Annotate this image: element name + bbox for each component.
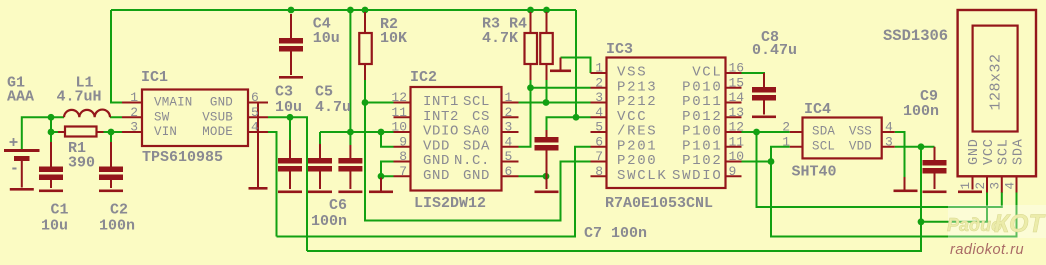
svg-text:2: 2 — [782, 120, 790, 135]
svg-text:P012: P012 — [682, 109, 722, 125]
ground for C8 — [752, 116, 776, 119]
svg-text:12: 12 — [729, 120, 745, 135]
label IC4 — [804, 101, 831, 118]
IC1 pin name MODE — [202, 125, 233, 139]
svg-text:IC2: IC2 — [410, 69, 437, 86]
label C9 — [920, 88, 938, 105]
resistor R2 — [359, 33, 372, 64]
svg-text:P212: P212 — [617, 94, 657, 110]
junction at 111,132 — [108, 129, 115, 136]
IC1 pin 5 stub — [248, 116, 268, 118]
svg-text:1: 1 — [505, 90, 513, 105]
svg-text:GND: GND — [423, 153, 450, 169]
junction at 546.5,10 — [543, 7, 550, 14]
wire SCL row IC2 to IC3 — [519, 102, 591, 104]
svg-text:4: 4 — [1003, 182, 1017, 190]
capacitor C8 top lead — [763, 73, 765, 87]
svg-text:4: 4 — [595, 105, 603, 120]
junction at 51,117.25 — [48, 114, 55, 121]
svg-text:CS: CS — [472, 109, 490, 125]
svg-text:VSS: VSS — [849, 125, 872, 139]
label R3 R4 value 4.7K — [482, 30, 518, 47]
svg-text:4.7K: 4.7K — [482, 30, 518, 47]
display pin 4 stub — [1016, 176, 1018, 192]
svg-text:INT2: INT2 — [423, 109, 459, 125]
wire R4 bottom to SCL node — [546, 79, 548, 103]
svg-text:3: 3 — [130, 120, 138, 135]
IC1 pin 6 stub — [248, 102, 268, 104]
capacitor C5 bottom lead — [319, 170, 321, 189]
inductor L1 — [64, 110, 110, 118]
capacitor C1 bottom lead — [50, 179, 52, 189]
wire IC1 VSUB to C3 and riser — [268, 117, 307, 251]
svg-text:GND: GND — [423, 168, 450, 184]
capacitor C6 bottom lead — [349, 170, 351, 189]
label C4 — [313, 16, 331, 33]
capacitor C1 top lead — [50, 142, 52, 167]
IC1 pin name VSUB — [202, 110, 233, 124]
svg-text:GND: GND — [967, 138, 982, 165]
wire R3 bottom to SDA node — [530, 79, 532, 88]
ground for C3 — [278, 191, 302, 194]
svg-text:1: 1 — [782, 134, 790, 149]
svg-text:VDIO: VDIO — [423, 124, 459, 140]
wire IC3 VCL to C8 — [742, 73, 765, 83]
wire VDIO row — [320, 131, 394, 133]
svg-text:MODE: MODE — [202, 125, 233, 139]
junction at 51,132 — [48, 129, 55, 136]
IC1 pin 3 stub — [122, 131, 142, 133]
wire VCC top rail — [111, 9, 576, 11]
label AAA — [7, 89, 34, 106]
ground for C7 — [535, 191, 559, 194]
ground for display GND pin — [958, 191, 982, 194]
svg-text:P213: P213 — [617, 79, 657, 95]
svg-text:C5: C5 — [315, 84, 333, 101]
label R1 — [68, 140, 86, 157]
wire VSUB bottom bus — [307, 147, 921, 251]
ground for IC1 GND pin — [249, 174, 268, 190]
label L1 — [76, 75, 94, 92]
display module outer box — [958, 10, 1036, 176]
junction at 365,102.5 — [362, 99, 369, 106]
junction at 530.5,10 — [527, 7, 534, 14]
IC4 pin numbers — [782, 120, 893, 150]
battery G1 long plate — [4, 149, 40, 152]
svg-text:/RES: /RES — [617, 124, 657, 140]
display pin 3 stub — [1001, 176, 1003, 192]
svg-text:SDA: SDA — [1011, 138, 1026, 165]
display pin number 2 — [974, 182, 988, 190]
label C1 value 10u — [41, 218, 68, 235]
svg-text:9: 9 — [729, 164, 737, 179]
label C9 value 100n — [903, 103, 939, 120]
svg-text:P201: P201 — [617, 138, 657, 154]
svg-text:VCL: VCL — [692, 65, 722, 81]
junction at 771,161.5 — [768, 158, 775, 165]
IC1 pin 1 stub — [122, 102, 142, 104]
svg-text:3: 3 — [885, 134, 893, 149]
svg-text:4: 4 — [251, 120, 259, 135]
label 128x32 — [988, 53, 1005, 110]
label C5 value 4.7u — [315, 99, 351, 116]
watermark overlay — [948, 205, 1046, 238]
capacitor C4 top lead — [290, 14, 292, 38]
svg-text:SSD1306: SSD1306 — [883, 27, 948, 45]
label IC3 — [606, 41, 633, 58]
label 4.7uH — [57, 89, 102, 106]
svg-text:IC3: IC3 — [606, 41, 633, 58]
junction at 381,176.25 — [378, 173, 385, 180]
svg-text:3: 3 — [505, 120, 513, 135]
svg-text:VCC: VCC — [617, 109, 647, 125]
ground for C4 — [279, 76, 303, 79]
svg-text:9: 9 — [399, 134, 407, 149]
wire P201 bottom line — [277, 147, 591, 237]
label R7A0E1053CNL — [605, 195, 713, 212]
svg-text:INT1: INT1 — [423, 94, 459, 110]
IC3 pin numbers and names — [595, 61, 744, 184]
svg-text:AAA: AAA — [7, 89, 34, 106]
label C4 value 10u — [313, 30, 340, 47]
display pin number 3 — [989, 182, 1003, 190]
resistor R4 — [540, 33, 553, 64]
junction at 921,146.75 — [918, 143, 925, 150]
resistor R4 bottom lead — [546, 64, 548, 80]
capacitor C5 — [308, 158, 332, 172]
resistor R1 leads — [58, 131, 104, 133]
svg-text:VIN: VIN — [154, 125, 177, 139]
svg-text:11: 11 — [729, 134, 745, 149]
svg-text:P200: P200 — [617, 153, 657, 169]
wire IC4 VDD to node — [895, 146, 935, 148]
IC1 pin numbers right — [251, 90, 259, 135]
capacitor C3 top lead — [289, 140, 291, 158]
svg-text:100n: 100n — [311, 213, 347, 230]
sensor IC4 box — [803, 118, 882, 159]
display pin name SCL — [997, 138, 1012, 165]
display pin 1 stub — [972, 176, 974, 189]
svg-text:4.7uH: 4.7uH — [57, 89, 102, 106]
svg-text:SCL: SCL — [997, 138, 1012, 165]
svg-text:C6: C6 — [329, 197, 347, 214]
watermark radiokot logo — [947, 210, 1046, 238]
ground for C5 — [308, 191, 332, 194]
svg-text:5: 5 — [251, 105, 259, 120]
microcontroller IC3 box — [607, 58, 726, 189]
junction at 546,102.5 — [543, 99, 550, 106]
battery G1 plus sign — [10, 138, 18, 146]
svg-text:P102: P102 — [682, 153, 722, 169]
wire SDA net IC3 to IC4 — [742, 131, 790, 133]
IC2 pin stubs — [394, 103, 519, 177]
IC4 pin 3 stub — [882, 146, 895, 148]
svg-text:1: 1 — [595, 61, 603, 76]
IC1 pin name VIN — [154, 125, 177, 139]
svg-text:10u: 10u — [313, 30, 340, 47]
label C6 — [329, 197, 347, 214]
svg-text:12: 12 — [391, 90, 407, 105]
label R2 — [380, 16, 398, 33]
wire IC2 GND pin6 — [519, 175, 547, 177]
label IC1 — [141, 69, 168, 86]
label IC2 — [410, 69, 437, 86]
IC1 pin name VMAIN — [154, 96, 193, 110]
battery G1 bottom lead — [21, 161, 23, 188]
label 390 — [68, 155, 95, 172]
svg-text:VDD: VDD — [423, 138, 450, 154]
label C8 value 0.47u — [752, 42, 797, 59]
label SHT40 — [792, 164, 837, 181]
svg-text:VCC: VCC — [982, 138, 997, 165]
wire IC4 VSS drop — [895, 132, 905, 190]
svg-text:SHT40: SHT40 — [792, 164, 837, 181]
svg-text:SWDIO: SWDIO — [672, 168, 723, 184]
svg-text:0.47u: 0.47u — [752, 42, 797, 59]
svg-text:P100: P100 — [682, 124, 722, 140]
IC1 pin 4 stub — [248, 131, 268, 133]
label C8 — [761, 29, 779, 46]
capacitor C3 bottom lead — [289, 170, 291, 189]
wire C3 top drop — [289, 117, 291, 140]
display module inner box — [973, 26, 1018, 132]
svg-text:16: 16 — [729, 61, 745, 76]
wire SCL net IC3 to IC4 — [742, 147, 790, 162]
wire VDD branch to pin9 — [381, 132, 394, 147]
battery G1 short plate — [14, 156, 30, 161]
wire VMAIN riser — [111, 10, 122, 103]
svg-text:3: 3 — [595, 90, 603, 105]
capacitor C3 — [278, 158, 302, 172]
resistor R3 bottom lead — [530, 64, 532, 80]
label TPS610985 — [142, 149, 223, 166]
svg-text:1: 1 — [959, 182, 973, 190]
svg-text:C1: C1 — [51, 202, 69, 219]
capacitor C4 — [279, 38, 303, 52]
IC1 pin name GND — [210, 96, 233, 110]
svg-text:10: 10 — [729, 149, 745, 164]
svg-text:2: 2 — [130, 105, 138, 120]
ground for IC2 GND pins — [369, 178, 393, 194]
svg-text:SCL: SCL — [463, 94, 490, 110]
ground for C6 — [338, 191, 362, 194]
label C5 — [315, 84, 333, 101]
wire SDA display line — [757, 132, 1002, 207]
label C3 value 10u — [275, 99, 302, 116]
wire C5 top — [319, 132, 321, 144]
svg-text:C2: C2 — [110, 202, 128, 219]
label C3 — [275, 84, 293, 101]
junction at 530.5,87.75 — [527, 84, 534, 91]
capacitor C9 top lead — [934, 147, 936, 160]
svg-text:10u: 10u — [41, 218, 68, 235]
svg-text:SA0: SA0 — [463, 124, 490, 140]
label G1 — [7, 75, 25, 92]
svg-text:1: 1 — [130, 90, 138, 105]
capacitor C6 — [338, 158, 362, 172]
svg-text:SW: SW — [154, 110, 170, 124]
resistor R1 — [65, 127, 97, 137]
svg-text:6: 6 — [251, 90, 259, 105]
capacitor C4 bottom lead — [290, 50, 292, 75]
svg-text:SCL: SCL — [812, 139, 835, 153]
display pin name GND — [967, 138, 982, 165]
capacitor C9 bottom lead — [934, 172, 936, 189]
label R2 value 10K — [380, 30, 407, 47]
svg-text:GND: GND — [210, 96, 233, 110]
svg-text:7: 7 — [399, 164, 407, 179]
svg-text:5: 5 — [595, 120, 603, 135]
svg-text:IC1: IC1 — [141, 69, 168, 86]
wire SDA riser to IC2 SDA — [519, 88, 531, 147]
resistor R3 — [525, 33, 538, 64]
label C2 value 100n — [99, 218, 135, 235]
svg-text:390: 390 — [68, 155, 95, 172]
svg-text:TPS610985: TPS610985 — [142, 149, 223, 166]
svg-text:3: 3 — [989, 182, 1003, 190]
wire VCC drop to VDIO — [349, 10, 351, 145]
ground for C1 — [39, 190, 63, 193]
svg-text:10: 10 — [391, 120, 407, 135]
display pin name SDA — [1011, 138, 1026, 165]
svg-text:radiokot.ru: radiokot.ru — [950, 242, 1024, 258]
junction at 381,132 — [378, 129, 385, 136]
wire IC1 GND pin drop — [257, 104, 259, 175]
svg-text:2: 2 — [974, 182, 988, 190]
wire R1 row — [51, 131, 122, 133]
svg-text:8: 8 — [595, 164, 603, 179]
wire IC3 VSS to gnd — [561, 58, 591, 74]
svg-text:2: 2 — [595, 75, 603, 90]
label C2 — [110, 202, 128, 219]
capacitor C5 top lead — [319, 144, 321, 158]
junction at 756.5,132 — [753, 129, 760, 136]
svg-text:100n: 100n — [99, 218, 135, 235]
capacitor C7 — [535, 137, 559, 151]
junction at 365,10 — [362, 7, 369, 14]
wire INT1/P200 riser — [365, 103, 591, 221]
svg-text:10u: 10u — [275, 99, 302, 116]
resistor R2 bottom lead — [364, 64, 366, 80]
svg-text:5: 5 — [505, 149, 513, 164]
svg-text:КОТ: КОТ — [994, 210, 1046, 238]
IC1 pin numbers left — [130, 90, 138, 135]
wire IC2 GND pins 8-7 — [381, 162, 394, 177]
label C6 value 100n — [311, 213, 347, 230]
junction at 350.4,132 — [347, 129, 354, 136]
svg-text:N.C.: N.C. — [454, 153, 490, 169]
resistor R3 top lead — [530, 12, 532, 33]
svg-text:4: 4 — [505, 134, 513, 149]
IC1 pin 2 stub — [122, 116, 142, 118]
IC4 pin 4 stub — [882, 131, 895, 133]
accelerometer IC2 box — [411, 87, 502, 191]
wire R2 bottom to INT1 — [365, 79, 394, 103]
svg-text:IC4: IC4 — [804, 101, 831, 118]
ground for battery — [10, 188, 34, 191]
capacitor C6 top lead — [349, 145, 351, 158]
svg-text:4.7u: 4.7u — [315, 99, 351, 116]
svg-text:C3: C3 — [275, 84, 293, 101]
label C7 100n — [584, 225, 647, 242]
svg-text:8: 8 — [399, 149, 407, 164]
label SSD1306 — [883, 27, 948, 45]
resistor R4 top lead — [546, 12, 548, 33]
watermark radiokot.ru — [950, 242, 1024, 258]
label R3 R4 — [482, 16, 527, 33]
label LIS2DW12 — [414, 195, 486, 212]
junction at 290,117.25 — [287, 114, 294, 121]
capacitor C2 bottom lead — [110, 179, 112, 189]
svg-text:SWCLK: SWCLK — [617, 168, 668, 184]
svg-text:SDA: SDA — [463, 138, 490, 154]
capacitor C2 — [99, 167, 123, 181]
capacitor C8 — [752, 87, 776, 101]
svg-text:15: 15 — [729, 75, 745, 90]
ground for IC3 VSS — [550, 58, 571, 73]
wire L1 to IC1 SW — [110, 116, 122, 118]
svg-text:VDD: VDD — [849, 139, 872, 153]
svg-text:GND: GND — [463, 168, 490, 184]
display pin name VCC — [982, 138, 997, 165]
battery G1 minus sign — [12, 168, 16, 170]
wire battery positive to L1 — [22, 117, 64, 149]
capacitor C2 top lead — [110, 142, 112, 167]
svg-text:11: 11 — [391, 105, 407, 120]
label C1 — [51, 202, 69, 219]
resistor R2 top lead — [364, 12, 366, 33]
svg-text:100n: 100n — [903, 103, 939, 120]
IC4 pin 1 stub — [790, 146, 803, 148]
svg-text:LIS2DW12: LIS2DW12 — [414, 195, 486, 212]
svg-text:2: 2 — [505, 105, 513, 120]
svg-text:7: 7 — [595, 149, 603, 164]
junction at 350.4,10 — [347, 7, 354, 14]
svg-text:P101: P101 — [682, 138, 722, 154]
svg-text:P010: P010 — [682, 79, 722, 95]
wire node joining L1 net and R1 net — [50, 117, 52, 132]
junction at 291,10 — [288, 7, 295, 14]
wire display VCC branch — [921, 192, 987, 222]
IC3 pin stubs — [591, 73, 742, 176]
IC4 pin names — [812, 125, 872, 154]
display pin 2 stub — [986, 176, 988, 192]
junction at 921,221.8 — [918, 218, 925, 225]
capacitor C8 bottom lead — [763, 99, 765, 115]
svg-text:128x32: 128x32 — [988, 53, 1005, 110]
wire SCL display line — [771, 162, 1017, 237]
svg-text:SDA: SDA — [812, 125, 835, 139]
svg-text:14: 14 — [729, 90, 745, 105]
svg-text:6: 6 — [505, 164, 513, 179]
svg-text:C7 100n: C7 100n — [584, 225, 647, 242]
display pin number 4 — [1003, 182, 1017, 190]
IC1 pin name SW — [154, 110, 170, 124]
svg-text:10K: 10K — [380, 30, 407, 47]
display pin number 1 — [959, 182, 973, 190]
svg-text:VSS: VSS — [617, 65, 647, 81]
wire C7 top to VCC node — [547, 117, 591, 130]
wire IC1 MODE riser — [268, 132, 277, 237]
wire C2 drop — [110, 132, 112, 142]
svg-text:R7A0E1053CNL: R7A0E1053CNL — [605, 195, 713, 212]
capacitor C9 — [923, 160, 947, 174]
svg-text:VSUB: VSUB — [202, 110, 233, 124]
svg-text:P011: P011 — [682, 94, 722, 110]
op-amp IC1 box — [142, 90, 248, 147]
svg-text:6: 6 — [595, 134, 603, 149]
ground for IC4 VSS — [894, 190, 918, 193]
